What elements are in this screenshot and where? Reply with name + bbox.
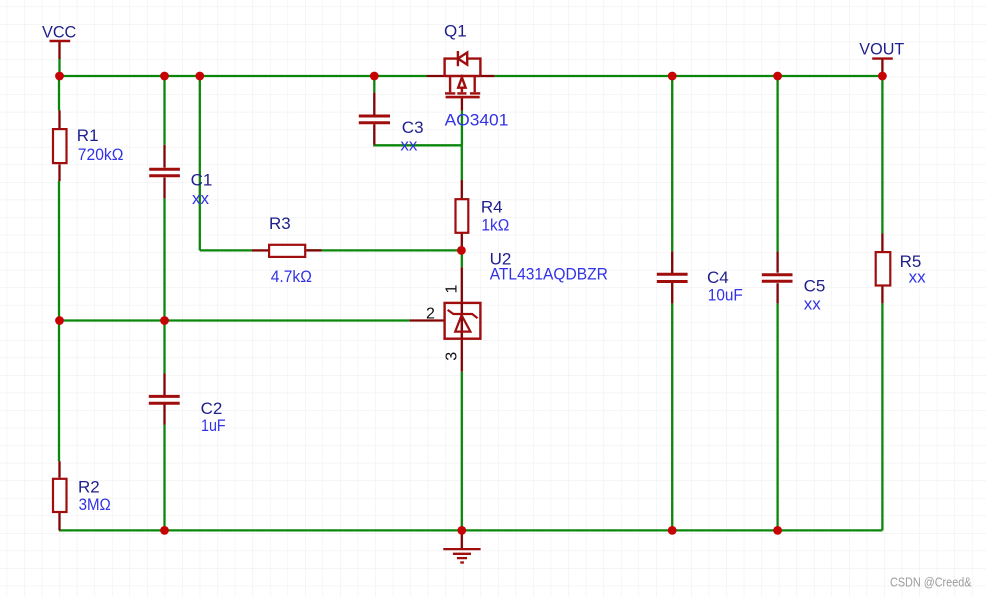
svg-text:1uF: 1uF	[201, 416, 226, 435]
svg-text:xx: xx	[400, 136, 418, 155]
svg-text:R4: R4	[481, 198, 503, 217]
svg-text:xx: xx	[909, 268, 927, 287]
svg-text:3MΩ: 3MΩ	[79, 495, 111, 514]
svg-text:R2: R2	[78, 477, 100, 496]
svg-text:2: 2	[426, 306, 435, 323]
svg-text:AO3401: AO3401	[445, 111, 509, 130]
svg-text:xx: xx	[192, 189, 210, 208]
svg-text:4.7kΩ: 4.7kΩ	[271, 267, 312, 286]
svg-text:720kΩ: 720kΩ	[78, 145, 124, 164]
svg-text:xx: xx	[804, 294, 822, 313]
svg-text:1kΩ: 1kΩ	[481, 215, 509, 234]
svg-text:C1: C1	[191, 171, 213, 190]
svg-text:R1: R1	[77, 126, 99, 145]
svg-text:R3: R3	[269, 214, 291, 233]
svg-text:VCC: VCC	[42, 23, 76, 42]
svg-text:ATL431AQDBZR: ATL431AQDBZR	[490, 265, 608, 284]
svg-text:C2: C2	[201, 399, 223, 418]
svg-text:10uF: 10uF	[708, 285, 743, 304]
svg-text:3: 3	[443, 352, 460, 361]
svg-text:1: 1	[443, 285, 460, 294]
svg-text:C3: C3	[402, 118, 424, 137]
svg-text:C4: C4	[707, 268, 729, 287]
svg-text:C5: C5	[804, 277, 826, 296]
svg-text:CSDN @Creed&: CSDN @Creed&	[890, 575, 972, 590]
svg-text:VOUT: VOUT	[859, 40, 904, 59]
svg-text:Q1: Q1	[444, 21, 467, 40]
